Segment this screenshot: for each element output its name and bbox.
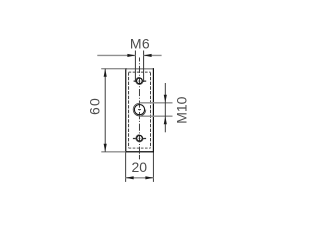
M6 dimension: right dimension line [144, 54, 162, 56]
60 dimension: dimension line [104, 69, 106, 152]
plate outline: top edge [125, 68, 154, 70]
svg-text:M6: M6 [130, 36, 150, 52]
hidden contour: bottom dashed line [129, 147, 151, 149]
hole M6 bottom: core circle [137, 135, 143, 141]
M6 dimension: left extension line [134, 51, 136, 83]
hole M6 top: core circle [137, 78, 143, 84]
M10 dimension: top extension line [140, 102, 173, 104]
20 dimension: right arrow [145, 176, 153, 179]
plate outline: right edge [152, 68, 154, 152]
M10 dimension: dimension line [164, 83, 166, 132]
hidden contour: right dashed line [149, 72, 151, 148]
M6 dimension: right extension line [143, 51, 145, 83]
M10 dimension: bottom arrow [164, 116, 167, 124]
vertical centerline [138, 58, 140, 160]
hole M10 middle: center dash [138, 109, 141, 111]
20 dimension: left arrow [126, 176, 134, 179]
hidden contour: left dashed line [128, 72, 130, 148]
M10 dimension: top arrow [164, 95, 167, 103]
60 dimension: bottom extension line [101, 151, 125, 153]
20 dimension: right extension line [152, 152, 154, 182]
20 dimension: left extension line [125, 152, 127, 182]
M6 dimension: left dimension line [97, 54, 135, 56]
hole M6 bottom: horizontal centerline [133, 138, 146, 140]
hole M6 top: thread arc [136, 77, 143, 84]
plate outline: bottom edge [125, 151, 154, 153]
hole M10 middle: thread arc [133, 103, 146, 116]
60 dimension: bottom arrow [104, 144, 107, 152]
centerline tail below plate [138, 155, 140, 159]
60 dimension: top extension line [101, 68, 126, 70]
M10 dimension: bottom extension line [140, 115, 173, 117]
60 dimension: top arrow [104, 69, 107, 77]
hidden contour: top dashed line [129, 71, 151, 73]
plate outline: left edge [125, 68, 127, 152]
M6 dimension: left arrow [127, 54, 135, 57]
svg-text:60: 60 [86, 97, 102, 115]
20 dimension: dimension line [126, 177, 154, 179]
svg-text:20: 20 [132, 159, 148, 175]
hole M10 middle: core circle [134, 105, 144, 115]
hole M6 top: horizontal centerline [134, 80, 147, 82]
hole M6 bottom: thread arc [136, 135, 143, 142]
svg-text:M10: M10 [174, 96, 190, 123]
M6 dimension: right arrow [144, 54, 152, 57]
